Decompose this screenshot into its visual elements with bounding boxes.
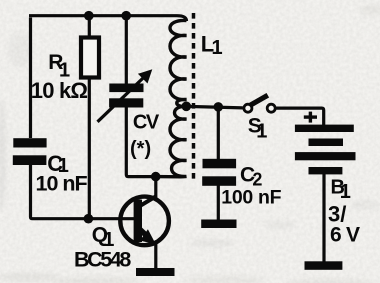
coil core dashed line (192, 13, 196, 179)
wire R1 leads (88, 16, 91, 219)
node coil tap (182, 102, 192, 112)
node top rail R1 (84, 11, 94, 21)
inductor L1 coil (156, 20, 187, 176)
svg-text:1: 1 (256, 121, 267, 143)
trimmer capacitor CV (109, 84, 143, 108)
svg-text:10 nF: 10 nF (36, 172, 88, 196)
battery B1 (295, 125, 356, 175)
wire tap to switch (187, 106, 243, 108)
wire switch to battery + (276, 108, 323, 125)
node base junction (84, 214, 94, 224)
node collector/coil/CV (151, 172, 161, 182)
switch S1 (244, 95, 275, 112)
wire CV leads (126, 16, 156, 177)
transistor Q1 (120, 196, 169, 245)
wire battery to ground (322, 174, 325, 262)
label R1 (48, 51, 70, 82)
resistor R1 (81, 38, 99, 78)
ground (C2) (201, 220, 236, 229)
svg-text:CV: CV (133, 112, 160, 134)
capacitor C2 (202, 159, 236, 186)
svg-text:100 nF: 100 nF (221, 187, 281, 209)
capacitor C1 (13, 138, 47, 165)
svg-text:1: 1 (212, 37, 223, 59)
label C1 (47, 151, 69, 177)
label C2 (240, 164, 262, 190)
svg-text:V: V (346, 224, 360, 247)
svg-text:BC548: BC548 (74, 247, 131, 271)
label + battery positive (304, 112, 317, 123)
label B1 (331, 177, 351, 203)
label S1 (248, 114, 268, 142)
svg-text:(*): (*) (130, 138, 151, 160)
label 6 V (330, 224, 360, 247)
wire left/base: C1 bottom to base (31, 164, 135, 219)
wire emitter to ground (154, 243, 157, 269)
wire top rail (29, 16, 187, 138)
CV arrow (98, 69, 153, 122)
svg-text:10 kΩ: 10 kΩ (31, 78, 88, 103)
wire C2 lead (217, 107, 220, 221)
label L1 (201, 31, 223, 59)
label Q1 (92, 223, 115, 251)
ground (battery) (305, 261, 343, 270)
node C2 tap (214, 102, 224, 112)
node top rail CV (121, 11, 131, 21)
svg-text:1: 1 (340, 181, 351, 203)
svg-text:6: 6 (330, 224, 342, 247)
ground (emitter) (136, 268, 175, 276)
wire collector (154, 177, 157, 198)
